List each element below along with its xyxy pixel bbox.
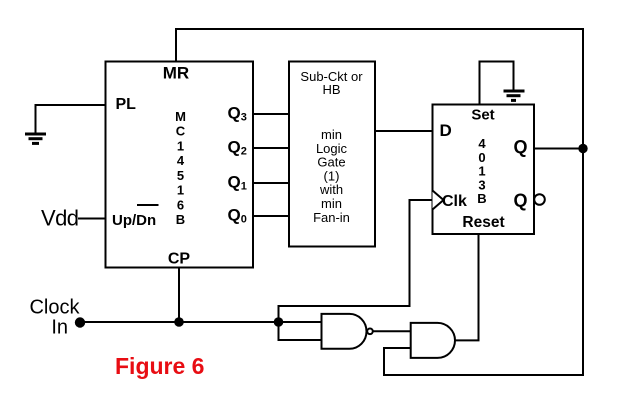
svg-text:1: 1 — [177, 138, 184, 153]
svg-text:M: M — [175, 109, 186, 124]
svg-text:Q: Q — [514, 191, 528, 211]
svg-text:Gate: Gate — [317, 155, 345, 170]
svg-text:(1): (1) — [324, 168, 340, 183]
svg-text:Clk: Clk — [442, 193, 467, 210]
svg-text:B: B — [176, 212, 185, 227]
svg-text:D: D — [440, 121, 452, 140]
svg-text:Reset: Reset — [462, 214, 504, 231]
svg-text:6: 6 — [177, 197, 184, 212]
svg-text:B: B — [477, 191, 486, 206]
svg-text:MR: MR — [163, 63, 189, 82]
svg-text:Figure 6: Figure 6 — [115, 353, 204, 379]
svg-text:Clock: Clock — [29, 296, 80, 318]
svg-text:min: min — [321, 196, 342, 211]
svg-text:5: 5 — [177, 168, 184, 183]
svg-text:Set: Set — [471, 107, 494, 124]
svg-text:CP: CP — [168, 251, 191, 268]
svg-text:PL: PL — [116, 96, 137, 113]
svg-text:1: 1 — [177, 183, 184, 198]
svg-text:min: min — [321, 127, 342, 142]
svg-text:Q: Q — [514, 137, 528, 157]
svg-text:with: with — [319, 182, 343, 197]
svg-text:Logic: Logic — [316, 141, 348, 156]
svg-text:In: In — [51, 317, 68, 339]
svg-text:Fan-in: Fan-in — [313, 210, 350, 225]
svg-text:4: 4 — [177, 153, 185, 168]
svg-text:Vdd: Vdd — [41, 206, 78, 231]
svg-text:HB: HB — [322, 82, 340, 97]
svg-text:C: C — [176, 124, 186, 139]
svg-text:Up/Dn: Up/Dn — [112, 212, 156, 229]
